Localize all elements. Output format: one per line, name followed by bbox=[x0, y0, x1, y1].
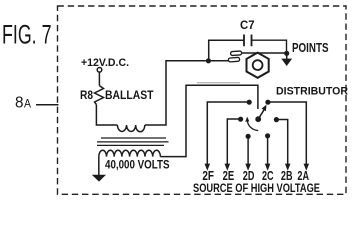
svg-text:40,000 VOLTS: 40,000 VOLTS bbox=[105, 157, 170, 171]
svg-text:C7: C7 bbox=[240, 20, 255, 32]
svg-text:+12V.D.C.: +12V.D.C. bbox=[81, 57, 129, 69]
svg-text:8: 8 bbox=[15, 95, 24, 112]
svg-text:A: A bbox=[24, 99, 31, 111]
svg-text:BALLAST: BALLAST bbox=[105, 88, 154, 102]
svg-text:R8: R8 bbox=[80, 88, 93, 102]
svg-text:POINTS: POINTS bbox=[292, 41, 329, 55]
svg-text:DISTRIBUTOR: DISTRIBUTOR bbox=[276, 86, 348, 98]
svg-text:FIG. 7: FIG. 7 bbox=[2, 20, 52, 50]
svg-text:SOURCE OF HIGH VOLTAGE: SOURCE OF HIGH VOLTAGE bbox=[193, 181, 320, 195]
